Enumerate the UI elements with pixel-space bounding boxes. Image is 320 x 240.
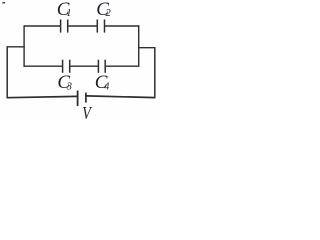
wire top branch right segment — [105, 25, 139, 27]
label C1 — [57, 0, 72, 20]
battery V long plate — [77, 91, 79, 107]
capacitor C1 — [60, 20, 62, 33]
label C4 — [95, 72, 109, 93]
wire right junction vertical — [138, 25, 140, 67]
wire left junction vertical — [23, 25, 25, 67]
battery V short plate — [85, 93, 87, 103]
label C3 — [57, 72, 72, 93]
capacitor C4 — [97, 60, 99, 73]
corner artifact mark — [2, 2, 5, 4]
svg-text:1: 1 — [66, 8, 71, 19]
svg-text:V: V — [82, 105, 93, 122]
wire middle branch left segment — [24, 65, 62, 67]
wire top branch left segment — [24, 25, 60, 27]
svg-text:4: 4 — [104, 82, 109, 93]
wire bottom right segment — [87, 96, 156, 98]
capacitor C3 — [62, 60, 64, 73]
wire left stub — [7, 46, 25, 48]
label C2 — [96, 0, 111, 20]
wire middle branch right segment — [106, 65, 139, 67]
label V — [82, 105, 93, 124]
wire bottom left segment — [7, 96, 77, 97]
wire top branch middle segment — [68, 25, 96, 27]
wire middle branch middle segment — [70, 65, 98, 67]
svg-text:3: 3 — [66, 82, 72, 93]
svg-text:2: 2 — [106, 8, 112, 19]
wire right stub — [139, 47, 155, 49]
wire left outer vertical — [6, 46, 8, 98]
wire right outer vertical — [154, 47, 156, 98]
capacitor C2 — [96, 20, 98, 33]
